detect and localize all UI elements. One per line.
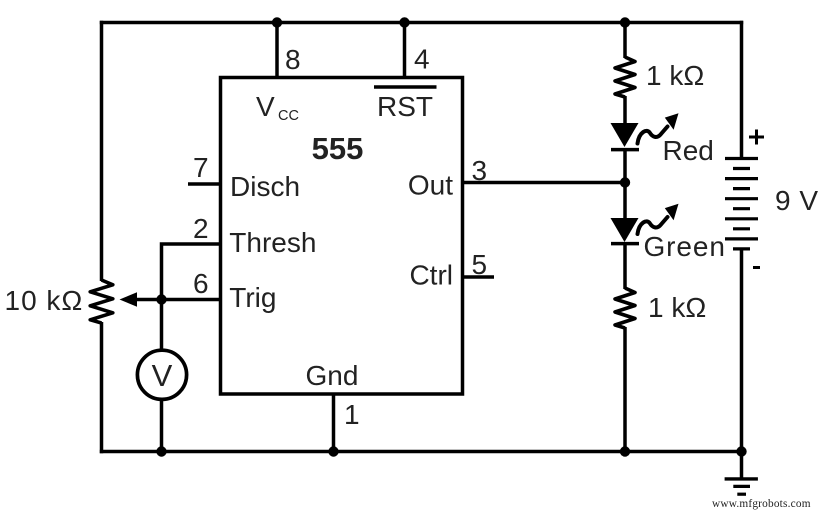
- label RST overline: [374, 85, 437, 88]
- battery BT1 plates: [725, 159, 758, 249]
- node junction wiper: [156, 294, 166, 304]
- node junction out: [620, 177, 630, 187]
- svg-text:555: 555: [312, 131, 364, 166]
- pin 3 out wire: [463, 181, 626, 185]
- wire wiper to pin 6: [134, 298, 220, 302]
- LED D2 green triangle: [611, 218, 639, 242]
- wire R2 to bottom rail: [623, 327, 627, 452]
- wire LED red to out junction: [623, 148, 627, 219]
- LED D1 red emission arrow: [638, 113, 679, 143]
- svg-text:Thresh: Thresh: [229, 227, 316, 258]
- svg-text:V: V: [256, 91, 275, 122]
- wire pin 4: [403, 23, 407, 80]
- svg-text:Green: Green: [644, 231, 726, 262]
- node junction pin 8 rail: [272, 17, 282, 27]
- wire pin 2 elbow: [162, 244, 221, 300]
- svg-text:9 V: 9 V: [775, 185, 819, 216]
- LED D1 red cathode bar: [611, 148, 639, 152]
- svg-text:Red: Red: [663, 135, 714, 166]
- wire top rail: [100, 21, 743, 25]
- svg-text:6: 6: [193, 268, 209, 299]
- svg-text:Disch: Disch: [230, 171, 300, 202]
- battery BT1 plus sign: [749, 130, 764, 145]
- svg-text:1: 1: [344, 399, 360, 430]
- svg-text:4: 4: [414, 44, 430, 75]
- wire left rail lower: [100, 322, 104, 453]
- LED D2 green emission arrow: [638, 204, 679, 234]
- potentiometer 10 kOhm body: [90, 280, 113, 323]
- svg-text:Gnd: Gnd: [306, 360, 359, 391]
- battery BT1 minus sign: [753, 266, 760, 269]
- wire junction to voltmeter: [160, 300, 164, 352]
- ground: [725, 479, 758, 494]
- voltmeter M1: [137, 350, 186, 399]
- wire bottom rail: [100, 450, 743, 454]
- wire LED green to R2: [623, 243, 627, 289]
- svg-text:8: 8: [285, 44, 301, 75]
- wire to ground: [740, 452, 744, 480]
- pin 7 stub: [188, 182, 220, 186]
- svg-text:Out: Out: [408, 169, 453, 200]
- svg-text:www.mfgrobots.com: www.mfgrobots.com: [712, 498, 811, 510]
- wire pin 1: [332, 393, 336, 452]
- svg-text:Ctrl: Ctrl: [409, 260, 453, 291]
- node junction battery bottom rail: [736, 446, 746, 456]
- svg-text:7: 7: [193, 152, 209, 183]
- svg-text:CC: CC: [278, 108, 299, 124]
- wire rail to R1: [623, 23, 627, 59]
- wire R1 to LED red: [623, 96, 627, 124]
- resistor R2 1 kOhm: [615, 288, 635, 328]
- LED D2 green cathode bar: [611, 242, 639, 246]
- LED D1 red triangle: [611, 123, 639, 147]
- wire battery bottom: [740, 249, 744, 452]
- svg-text:V: V: [152, 358, 173, 393]
- node junction LED column top rail: [620, 17, 630, 27]
- svg-text:3: 3: [472, 155, 488, 186]
- svg-text:Trig: Trig: [229, 282, 276, 313]
- resistor R1 1 kOhm: [615, 57, 635, 97]
- wire pin 8: [275, 23, 279, 80]
- node junction pin 1 bottom rail: [328, 446, 338, 456]
- node junction pin 4 rail: [399, 17, 409, 27]
- svg-text:1 kΩ: 1 kΩ: [648, 292, 706, 323]
- pin 5 stub: [463, 275, 494, 279]
- potentiometer wiper arrow: [120, 292, 138, 307]
- svg-text:5: 5: [472, 249, 488, 280]
- node junction R2 bottom rail: [620, 446, 630, 456]
- svg-text:RST: RST: [377, 91, 433, 122]
- svg-text:10 kΩ: 10 kΩ: [5, 285, 84, 316]
- wire voltmeter to bottom rail: [160, 399, 164, 451]
- op-amp U1 555 chip box: [221, 78, 463, 395]
- svg-text:2: 2: [193, 213, 209, 244]
- wire left rail upper: [100, 21, 104, 281]
- node junction voltmeter bottom: [156, 446, 166, 456]
- svg-text:1 kΩ: 1 kΩ: [646, 60, 704, 91]
- wire battery top: [740, 21, 744, 159]
